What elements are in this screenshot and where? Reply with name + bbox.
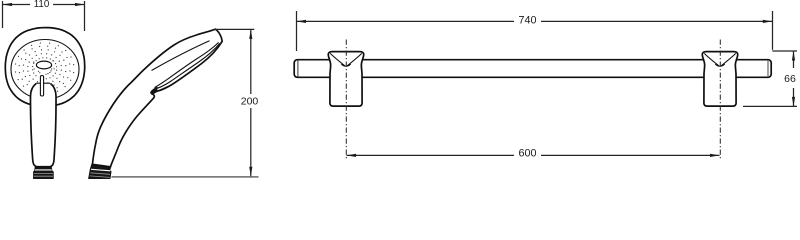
left bracket V notch (330, 53, 362, 66)
rail: horizontal tube (294, 60, 771, 78)
hand shower side view: face rim upper line (155, 42, 219, 87)
dimension 110 extension line right (84, 1, 86, 31)
dimension 66 extension line bottom (743, 105, 797, 107)
svg-text:66: 66 (784, 73, 796, 85)
rail: left end cap inner line (297, 60, 299, 77)
dimension 110 line (3, 4, 31, 6)
dimension 200 baseline extension (112, 176, 259, 178)
svg-text:110: 110 (34, 0, 50, 10)
hand shower side view: lip lower line (153, 86, 169, 93)
dimension 66 extension line top (772, 50, 797, 52)
hand shower front view: centre oval (36, 61, 51, 69)
dimension 740 extension line left (296, 11, 298, 51)
rail: right end cap inner line (767, 60, 769, 77)
svg-text:200: 200 (241, 95, 259, 107)
right bracket centreline (719, 40, 721, 161)
hand shower side view: spray lip tip (151, 88, 157, 94)
hand shower side view: face inner rim line (153, 43, 220, 89)
hand shower front view: spray face inner ellipse (11, 40, 79, 100)
left bracket body (328, 52, 363, 107)
dimension 66 line (793, 51, 795, 68)
svg-text:740: 740 (518, 14, 536, 26)
hand shower front view: handle (30, 83, 56, 166)
right bracket V notch (704, 53, 736, 66)
right bracket body (702, 52, 737, 107)
hand shower front view: diverter slot (36, 82, 40, 84)
dimension 740 line (297, 20, 515, 22)
dimension 600 line (347, 154, 515, 156)
dimension 110 extension line left (2, 1, 4, 28)
hand shower side view: body outline (92, 29, 222, 167)
hand shower side view: hose connector nut (89, 164, 111, 179)
svg-text:600: 600 (518, 148, 536, 160)
dimension 740 extension line right (772, 11, 774, 50)
hand shower side view: top crease line (152, 41, 210, 71)
dimension 200 line (250, 29, 252, 94)
hand shower front view: head outer body (5, 28, 84, 107)
hand shower front view: spray nozzle dots (15, 42, 74, 94)
dimension 200 top extension line (214, 28, 254, 30)
left bracket centreline (345, 40, 347, 161)
hand shower front view: hose connector nut (34, 167, 54, 179)
